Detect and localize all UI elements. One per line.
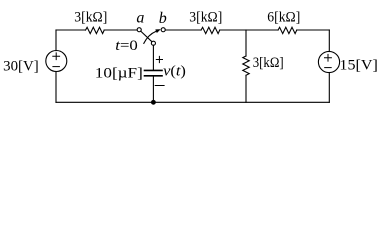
switch SW1 motion arrow arc (144, 31, 156, 43)
capacitor C1 top plate (145, 69, 163, 71)
switch SW1 blade (from a to pole) (141, 31, 152, 42)
switch SW1 arrowhead (156, 30, 161, 33)
svg-text:t=0: t=0 (115, 38, 138, 54)
switch SW1 pole terminal circle (151, 41, 155, 45)
wire middle branch upper (245, 30, 247, 56)
capacitor minus sign (155, 85, 164, 87)
svg-text:6[kΩ]: 6[kΩ] (267, 10, 300, 26)
wire top rail R2 to R3 (220, 29, 278, 31)
svg-text:3[kΩ]: 3[kΩ] (74, 10, 107, 26)
V2 minus sign (325, 67, 332, 69)
wire top rail R1 to node a (104, 29, 137, 31)
svg-text:a: a (136, 10, 144, 27)
V1 plus sign (53, 53, 60, 60)
wire bottom rail (56, 101, 329, 103)
capacitor plus sign (156, 56, 162, 62)
wire top rail R3 to right corner (297, 29, 330, 31)
svg-text:3[kΩ]: 3[kΩ] (189, 10, 222, 26)
wire top rail left segment (56, 29, 86, 31)
wire left branch lower (55, 72, 57, 103)
resistor R4 3[kOhm] vertical (243, 56, 249, 75)
svg-text:v(t): v(t) (163, 64, 186, 80)
svg-text:10[µF]: 10[µF] (95, 65, 143, 81)
V1 minus sign (53, 66, 60, 68)
wire right branch upper (328, 30, 330, 52)
wire right branch lower (328, 73, 330, 103)
node a terminal circle (137, 28, 141, 32)
resistor R3 6[kOhm] (278, 27, 297, 33)
wire switch pole to capacitor (152, 45, 154, 69)
resistor R1 3[kOhm] (86, 27, 105, 33)
voltage source V2 circle (318, 51, 339, 72)
wire left branch upper (55, 30, 57, 51)
junction dot capacitor/bottom rail (151, 100, 156, 105)
wire middle branch lower (245, 75, 247, 102)
V2 plus sign (325, 54, 332, 61)
voltage source V1 circle (46, 51, 67, 72)
capacitor C1 bottom plate (145, 75, 163, 77)
svg-text:30[V]: 30[V] (3, 58, 39, 74)
svg-text:b: b (159, 10, 167, 27)
node b terminal circle (161, 28, 165, 32)
svg-text:3[kΩ]: 3[kΩ] (253, 55, 284, 71)
svg-text:15[V]: 15[V] (339, 57, 378, 73)
wire capacitor to bottom rail (152, 77, 154, 103)
resistor R2 3[kOhm] (201, 27, 220, 33)
wire top rail node b to R2 (165, 29, 201, 31)
